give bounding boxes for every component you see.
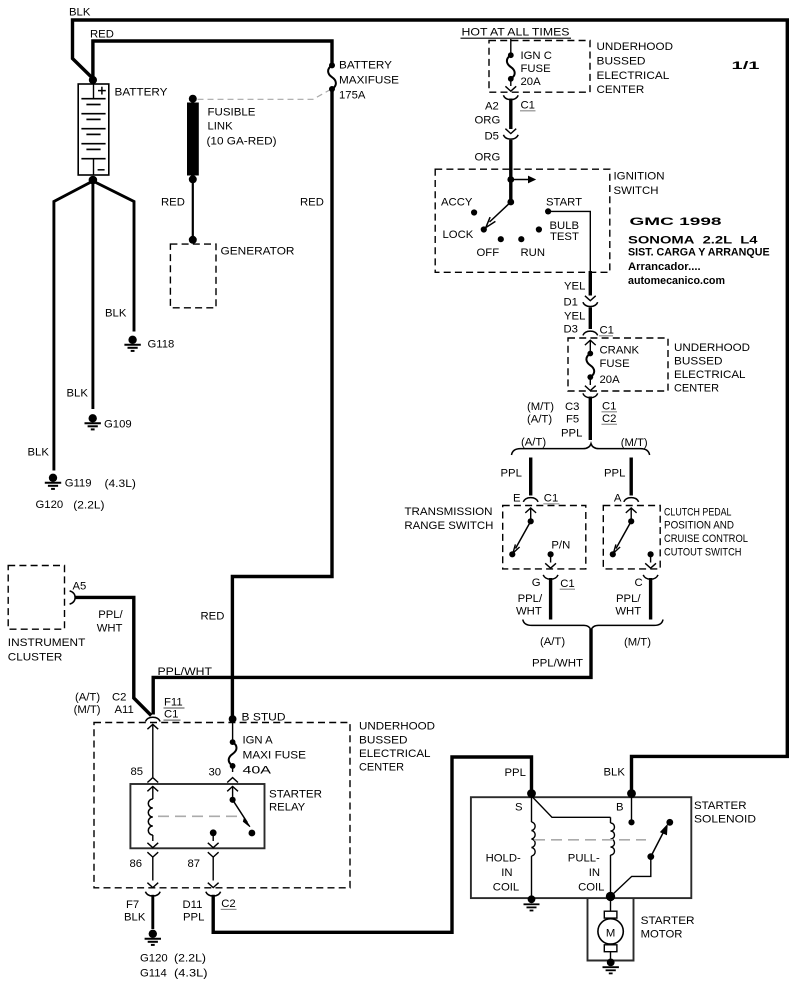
svg-text:C1: C1 [164,709,178,721]
label PPL/ WHT (G side) [516,593,543,618]
clutch switch arm [610,509,635,558]
node B STUD [229,715,237,723]
pull-in coil [611,817,615,895]
wire PPL crank fuse to A/T-M/T split [589,397,592,441]
svg-text:F5: F5 [566,414,579,426]
fuse IGN C 20A [507,39,515,86]
svg-text:TRANSMISSION: TRANSMISSION [405,506,493,518]
svg-text:BLK: BLK [69,7,91,19]
svg-text:YEL: YEL [564,281,585,293]
svg-text:Arrancador....: Arrancador.... [628,261,701,273]
relay coil [148,786,153,841]
fuse IGN A MAXI FUSE 40A [229,719,237,772]
svg-text:F7: F7 [126,899,139,911]
svg-text:175A: 175A [339,90,366,102]
wire YEL ignition START to D1 [589,271,592,296]
svg-text:D3: D3 [564,324,578,336]
node solenoid output to motor [606,892,615,901]
svg-text:RANGE SWITCH: RANGE SWITCH [404,520,493,532]
svg-text:POSITION AND: POSITION AND [664,520,734,532]
node ignition feed junction w/ right arrow [507,176,536,184]
wire YEL D1 to D3/C1 [589,307,592,329]
svg-text:BUSSED: BUSSED [359,735,408,747]
svg-text:MAXI FUSE: MAXI FUSE [243,750,307,762]
label C2 (underlined) [221,898,237,910]
svg-text:C1: C1 [560,578,574,590]
wire BLK F7 to ground [151,895,154,929]
svg-text:MAXIFUSE: MAXIFUSE [339,75,399,87]
ground (starter motor) [603,959,619,974]
svg-text:ELECTRICAL: ELECTRICAL [597,70,670,82]
svg-text:CUTOUT SWITCH: CUTOUT SWITCH [664,547,742,559]
connector A2 C1 (UBEC output) [503,86,518,99]
connector C1 into crank fuse box (dome + arrow) [583,331,598,345]
node generator terminal [189,236,197,244]
label (M/T) C3 / (A/T) F5 [527,401,579,426]
svg-text:BUSSED: BUSSED [674,356,723,368]
svg-text:PPL: PPL [604,467,625,479]
svg-text:S: S [515,802,523,814]
label TRANSMISSION RANGE SWITCH [404,506,493,532]
svg-text:30: 30 [209,767,222,779]
wire F11 to relay pin 85 [152,725,154,778]
label C1 (E) [543,493,559,505]
svg-text:A: A [614,492,622,504]
svg-text:GMC 1998: GMC 1998 [630,216,722,228]
svg-text:PPL/: PPL/ [518,593,543,605]
relay mechanical link (dashed gray) [158,815,239,817]
wire B terminal to switch contact [631,795,633,820]
wire PPL/WHT instrument cluster A5 to C2/A11 [75,597,152,715]
clutch pedal switch box (dashed) [603,506,660,569]
svg-text:ACCY: ACCY [441,196,473,208]
label F7 BLK [124,899,146,923]
svg-text:RED: RED [201,611,225,623]
wire RED maxifuse to B STUD [232,91,332,716]
svg-text:(M/T): (M/T) [624,636,651,648]
contact RUN [518,236,545,259]
svg-text:IN: IN [589,867,600,879]
svg-text:STARTER: STARTER [694,800,747,812]
svg-text:A11: A11 [115,704,134,716]
svg-text:(4.3L): (4.3L) [105,478,137,490]
svg-text:G109: G109 [104,419,132,431]
wire BLK battery negative to G119/G120 [54,181,93,471]
svg-text:(2.2L): (2.2L) [73,500,104,512]
ignition switch box (dashed) [435,169,610,272]
relay contact 87 [210,829,217,841]
label PPL/ WHT (C side) [615,593,641,618]
svg-text:E: E [513,492,521,504]
svg-text:TEST: TEST [550,231,579,243]
contact B (solenoid switch) [628,819,634,825]
svg-text:WHT: WHT [516,605,542,617]
contact ACCY [441,196,477,215]
wire 86 to F7 [152,857,154,880]
underhood bussed electrical center box (crank fuse, dashed) [568,338,668,391]
svg-text:BLK: BLK [124,911,146,923]
svg-text:CLUTCH PEDAL: CLUTCH PEDAL [664,507,732,519]
title block GMC 1998 SONOMA [628,216,770,287]
solenoid switch arm w/ arrow [647,825,667,860]
svg-text:HOLD-: HOLD- [486,853,521,865]
connector D1 (in-line) [583,296,598,307]
svg-text:86: 86 [130,858,143,870]
wire S to pull-in coil feed [532,796,611,817]
svg-text:PPL/: PPL/ [98,609,123,621]
starter motor M1 [598,898,623,959]
starter solenoid box [471,797,691,898]
wire PPL to clutch switch A [630,458,633,496]
underhood bussed electrical center box (bottom, dashed) [94,723,350,888]
svg-text:BLK: BLK [28,447,50,459]
connector A5 on instrument cluster [70,591,76,604]
svg-text:BLK: BLK [105,308,127,320]
label IGN C FUSE 20A [521,50,552,88]
label CLUTCH PEDAL POSITION AND CRUISE CONTROL CUTOUT SWITCH [664,507,748,559]
svg-text:PPL: PPL [501,467,522,479]
svg-text:C1: C1 [600,325,614,337]
svg-text:IGNITION: IGNITION [614,171,665,183]
ground G119 (4.3L) / G120 (2.2L) [36,474,137,512]
wire BLK battery negative to G118 [93,181,134,332]
svg-text:SONOMA 2.2L L4: SONOMA 2.2L L4 [628,235,758,247]
svg-text:PPL/: PPL/ [616,593,641,605]
svg-text:F11: F11 [164,697,183,709]
node B terminal [627,789,636,798]
svg-text:(A/T): (A/T) [75,692,100,704]
svg-text:M: M [606,927,615,939]
label G120 (2.2L) G114 (4.3L) [140,953,208,980]
svg-text:LINK: LINK [208,121,234,133]
svg-text:40A: 40A [243,765,272,777]
svg-text:FUSIBLE: FUSIBLE [208,107,256,119]
node battery positive junction [89,76,97,84]
transmission range switch box (dashed) [503,506,586,569]
instrument cluster box (dashed) [8,566,64,630]
svg-text:UNDERHOOD: UNDERHOOD [674,342,750,354]
connector E C1 (dome + arrow) [523,498,538,513]
contact START [545,196,582,214]
svg-text:A2: A2 [485,101,499,113]
battery B1 [78,84,109,175]
svg-text:C2: C2 [221,898,235,910]
svg-text:(A/T): (A/T) [521,436,546,448]
svg-text:ELECTRICAL: ELECTRICAL [359,748,431,760]
svg-text:C1: C1 [544,493,558,505]
svg-text:C: C [635,577,643,589]
node S terminal [527,789,536,798]
wire START contact to box exit [548,211,590,271]
contact C (clutch) [645,551,656,568]
connector A (dome + arrow) [624,498,639,513]
connector G C1 below TRS [543,575,558,579]
svg-text:20A: 20A [521,76,542,88]
svg-text:(M/T): (M/T) [74,704,101,716]
svg-text:IN: IN [501,867,512,879]
svg-text:CENTER: CENTER [597,84,645,96]
svg-text:PPL: PPL [561,428,582,440]
label PULL- IN COIL [568,853,605,894]
svg-text:UNDERHOOD: UNDERHOOD [359,721,435,733]
wire RED battery positive to battery maxifuse [93,41,332,79]
svg-text:CLUSTER: CLUSTER [8,652,63,664]
svg-text:87: 87 [188,858,201,870]
wire 87 to D11 [212,857,214,880]
transmission range switch arm [509,509,534,558]
contact LOCK [443,226,487,241]
ground G118 [124,336,174,351]
label UNDERHOOD BUSSED ELECTRICAL CENTER (top) [597,41,674,96]
svg-text:(M/T): (M/T) [527,401,554,413]
svg-text:(10 GA-RED): (10 GA-RED) [207,136,277,148]
svg-text:START: START [546,196,582,208]
label C1 / C2 (underlined) [602,401,618,426]
svg-text:BLK: BLK [67,388,89,400]
label HOT AT ALL TIMES [461,27,572,39]
contact OFF [477,236,504,259]
svg-text:20A: 20A [600,374,621,386]
svg-text:SOLENOID: SOLENOID [694,814,756,826]
connector F7 (arrow + cup) [145,883,160,896]
label UNDERHOOD BUSSED ELECTRICAL CENTER (crank fuse) [674,342,750,395]
connector C1/C2 below crank fuse box [583,393,598,397]
svg-text:(A/T): (A/T) [527,414,552,426]
label D11 PPL [183,899,205,923]
svg-text:RUN: RUN [521,247,545,259]
ground G120/G114 (relay) [145,930,161,945]
wire BLK battery negative to G109 [91,181,94,409]
svg-text:CRUISE CONTROL: CRUISE CONTROL [664,533,748,545]
svg-text:G: G [532,577,541,589]
svg-text:(4.3L): (4.3L) [174,968,208,980]
svg-text:LOCK: LOCK [443,229,474,241]
svg-text:G120: G120 [140,953,168,965]
svg-text:PPL: PPL [505,767,526,779]
svg-text:D11: D11 [183,899,203,911]
starter relay box [130,784,264,848]
wire PPL/WHT from C [649,578,652,620]
relay pin 87 terminal chevrons [208,843,219,857]
svg-text:(A/T): (A/T) [540,636,565,648]
svg-text:D1: D1 [564,297,578,309]
svg-text:RED: RED [161,197,185,209]
label C1 (D3) [599,325,614,337]
node hold-in coil ground stud [528,895,536,903]
relay pin 86 terminal chevrons [147,843,158,857]
label F11 / C1 (underlined) [164,697,185,721]
wire PPL/WHT from G [549,578,552,620]
svg-text:UNDERHOOD: UNDERHOOD [597,41,674,53]
starter motor enclosure [588,898,634,961]
svg-text:CRANK: CRANK [600,344,640,356]
svg-text:BATTERY: BATTERY [339,60,392,72]
svg-text:C3: C3 [565,401,579,413]
node battery negative junction [89,176,98,185]
svg-text:IGN C: IGN C [521,50,552,62]
relay pin 85 terminal chevrons [147,778,158,792]
svg-text:FUSE: FUSE [521,63,552,75]
relay switch arm 30-87 [230,786,256,836]
svg-text:automecanico.com: automecanico.com [628,275,725,287]
ignition switch rotor arm (points to LOCK) [486,199,514,228]
brace split to (A/T) and (M/T) [512,444,650,455]
contact P/N [545,540,570,569]
svg-text:STARTER: STARTER [641,915,695,927]
svg-text:C1: C1 [521,100,535,112]
svg-text:SWITCH: SWITCH [614,185,659,197]
underhood bussed electrical center box (top, dashed) [489,41,590,93]
solenoid mechanical link (dashed gray) [534,839,646,841]
svg-text:1/1: 1/1 [732,60,760,72]
svg-text:CENTER: CENTER [359,762,404,774]
svg-text:G118: G118 [148,339,175,351]
label FUSIBLE LINK (10 GA-RED) [207,107,277,148]
svg-text:PPL/WHT: PPL/WHT [532,658,583,670]
generator box (dashed) [170,244,216,308]
wire dashed tie fusible link to maxifuse [198,90,331,100]
svg-text:COIL: COIL [578,882,604,894]
svg-text:D5: D5 [485,131,499,143]
wire BLK battery positive to starter solenoid B terminal (top and right runs) [73,20,788,792]
connector D11 C2 (arrow + cup) [206,883,221,896]
svg-text:P/N: P/N [551,540,570,552]
svg-text:SIST. CARGA Y ARRANQUE: SIST. CARGA Y ARRANQUE [628,247,770,259]
label PPL/ WHT (A5 wire) [97,609,124,634]
label CRANK FUSE 20A [600,344,640,386]
wire PPL to transmission range switch E [529,458,532,496]
svg-text:CENTER: CENTER [674,383,719,395]
svg-text:ORG: ORG [475,115,501,127]
fusible link FL1 (10 GA-RED) [187,95,199,184]
svg-text:MOTOR: MOTOR [641,929,683,941]
svg-text:COIL: COIL [493,882,519,894]
label UNDERHOOD BUSSED ELECTRICAL CENTER (bottom) [359,721,435,774]
label HOLD- IN COIL [486,853,521,894]
label STARTER MOTOR [641,915,695,941]
svg-text:G114: G114 [140,968,167,980]
svg-text:RED: RED [90,29,114,41]
svg-text:C2: C2 [602,413,616,425]
svg-text:BATTERY: BATTERY [115,87,168,99]
wire ignition feed to rotor pivot [509,180,512,203]
connector C below clutch switch [643,575,658,579]
solenoid plunger linkage [612,857,651,896]
label IGNITION SWITCH [614,171,665,198]
label C1 (G) [560,578,575,590]
ground (hold-in coil) [524,904,540,910]
label STARTER RELAY [269,789,322,814]
connector D5 (in-line) [503,129,518,139]
svg-text:STARTER: STARTER [269,789,322,801]
svg-text:PPL/WHT: PPL/WHT [158,666,213,678]
svg-text:PPL: PPL [183,911,204,923]
svg-text:BLK: BLK [604,767,626,779]
wire ORG A2 to D5 [509,99,512,130]
svg-text:ORG: ORG [475,152,501,164]
svg-text:HOT AT ALL TIMES: HOT AT ALL TIMES [462,27,571,39]
ground G109 [85,414,132,430]
svg-text:GENERATOR: GENERATOR [221,246,295,258]
svg-text:A5: A5 [73,581,87,593]
svg-text:PULL-: PULL- [568,853,600,865]
svg-text:WHT: WHT [615,605,641,617]
svg-text:B: B [616,802,624,814]
label INSTRUMENT CLUSTER [8,637,86,663]
svg-text:IGN A: IGN A [243,735,274,747]
contact BULB TEST [536,220,579,243]
svg-text:(M/T): (M/T) [621,437,648,449]
svg-text:RED: RED [300,197,324,209]
relay pin 30 terminal chevrons [227,778,238,792]
svg-text:G120: G120 [36,499,64,511]
svg-text:BULB: BULB [550,220,580,232]
label (A/T) C2 / (M/T) A11 [74,692,134,717]
hold-in coil [532,795,536,897]
svg-text:OFF: OFF [477,247,500,259]
svg-text:C2: C2 [112,692,126,704]
label BATTERY MAXIFUSE 175A [339,60,399,102]
fuse CRANK 20A [585,341,596,391]
svg-text:YEL: YEL [564,311,585,323]
wire ORG D5 to ignition switch [509,140,512,180]
wire PPL D11 to starter solenoid S [213,757,531,932]
brace merge (A/T)/(M/T) to PPL/WHT [523,620,663,631]
wire PPL/WHT merge to F11 connector [153,629,591,715]
label STARTER SOLENOID [694,800,756,826]
svg-text:(2.2L): (2.2L) [174,953,206,965]
connector F11/C1 into UBEC (dome + arrow) [145,717,160,729]
svg-text:ELECTRICAL: ELECTRICAL [674,369,746,381]
wire RED fusible link to generator [192,183,194,240]
label C1 (A2) [520,100,536,112]
svg-text:RELAY: RELAY [269,802,306,814]
svg-text:G119: G119 [65,478,92,490]
svg-text:C1: C1 [602,401,616,413]
svg-text:BUSSED: BUSSED [597,55,646,67]
svg-text:85: 85 [131,766,144,778]
contact fixed (solenoid switch) [666,819,673,826]
svg-text:WHT: WHT [97,622,123,634]
fuse battery maxifuse 175A [328,62,336,92]
svg-text:INSTRUMENT: INSTRUMENT [8,637,86,649]
svg-text:FUSE: FUSE [600,358,631,370]
label IGN A MAXI FUSE 40A [243,735,307,777]
svg-text:B STUD: B STUD [242,712,286,724]
